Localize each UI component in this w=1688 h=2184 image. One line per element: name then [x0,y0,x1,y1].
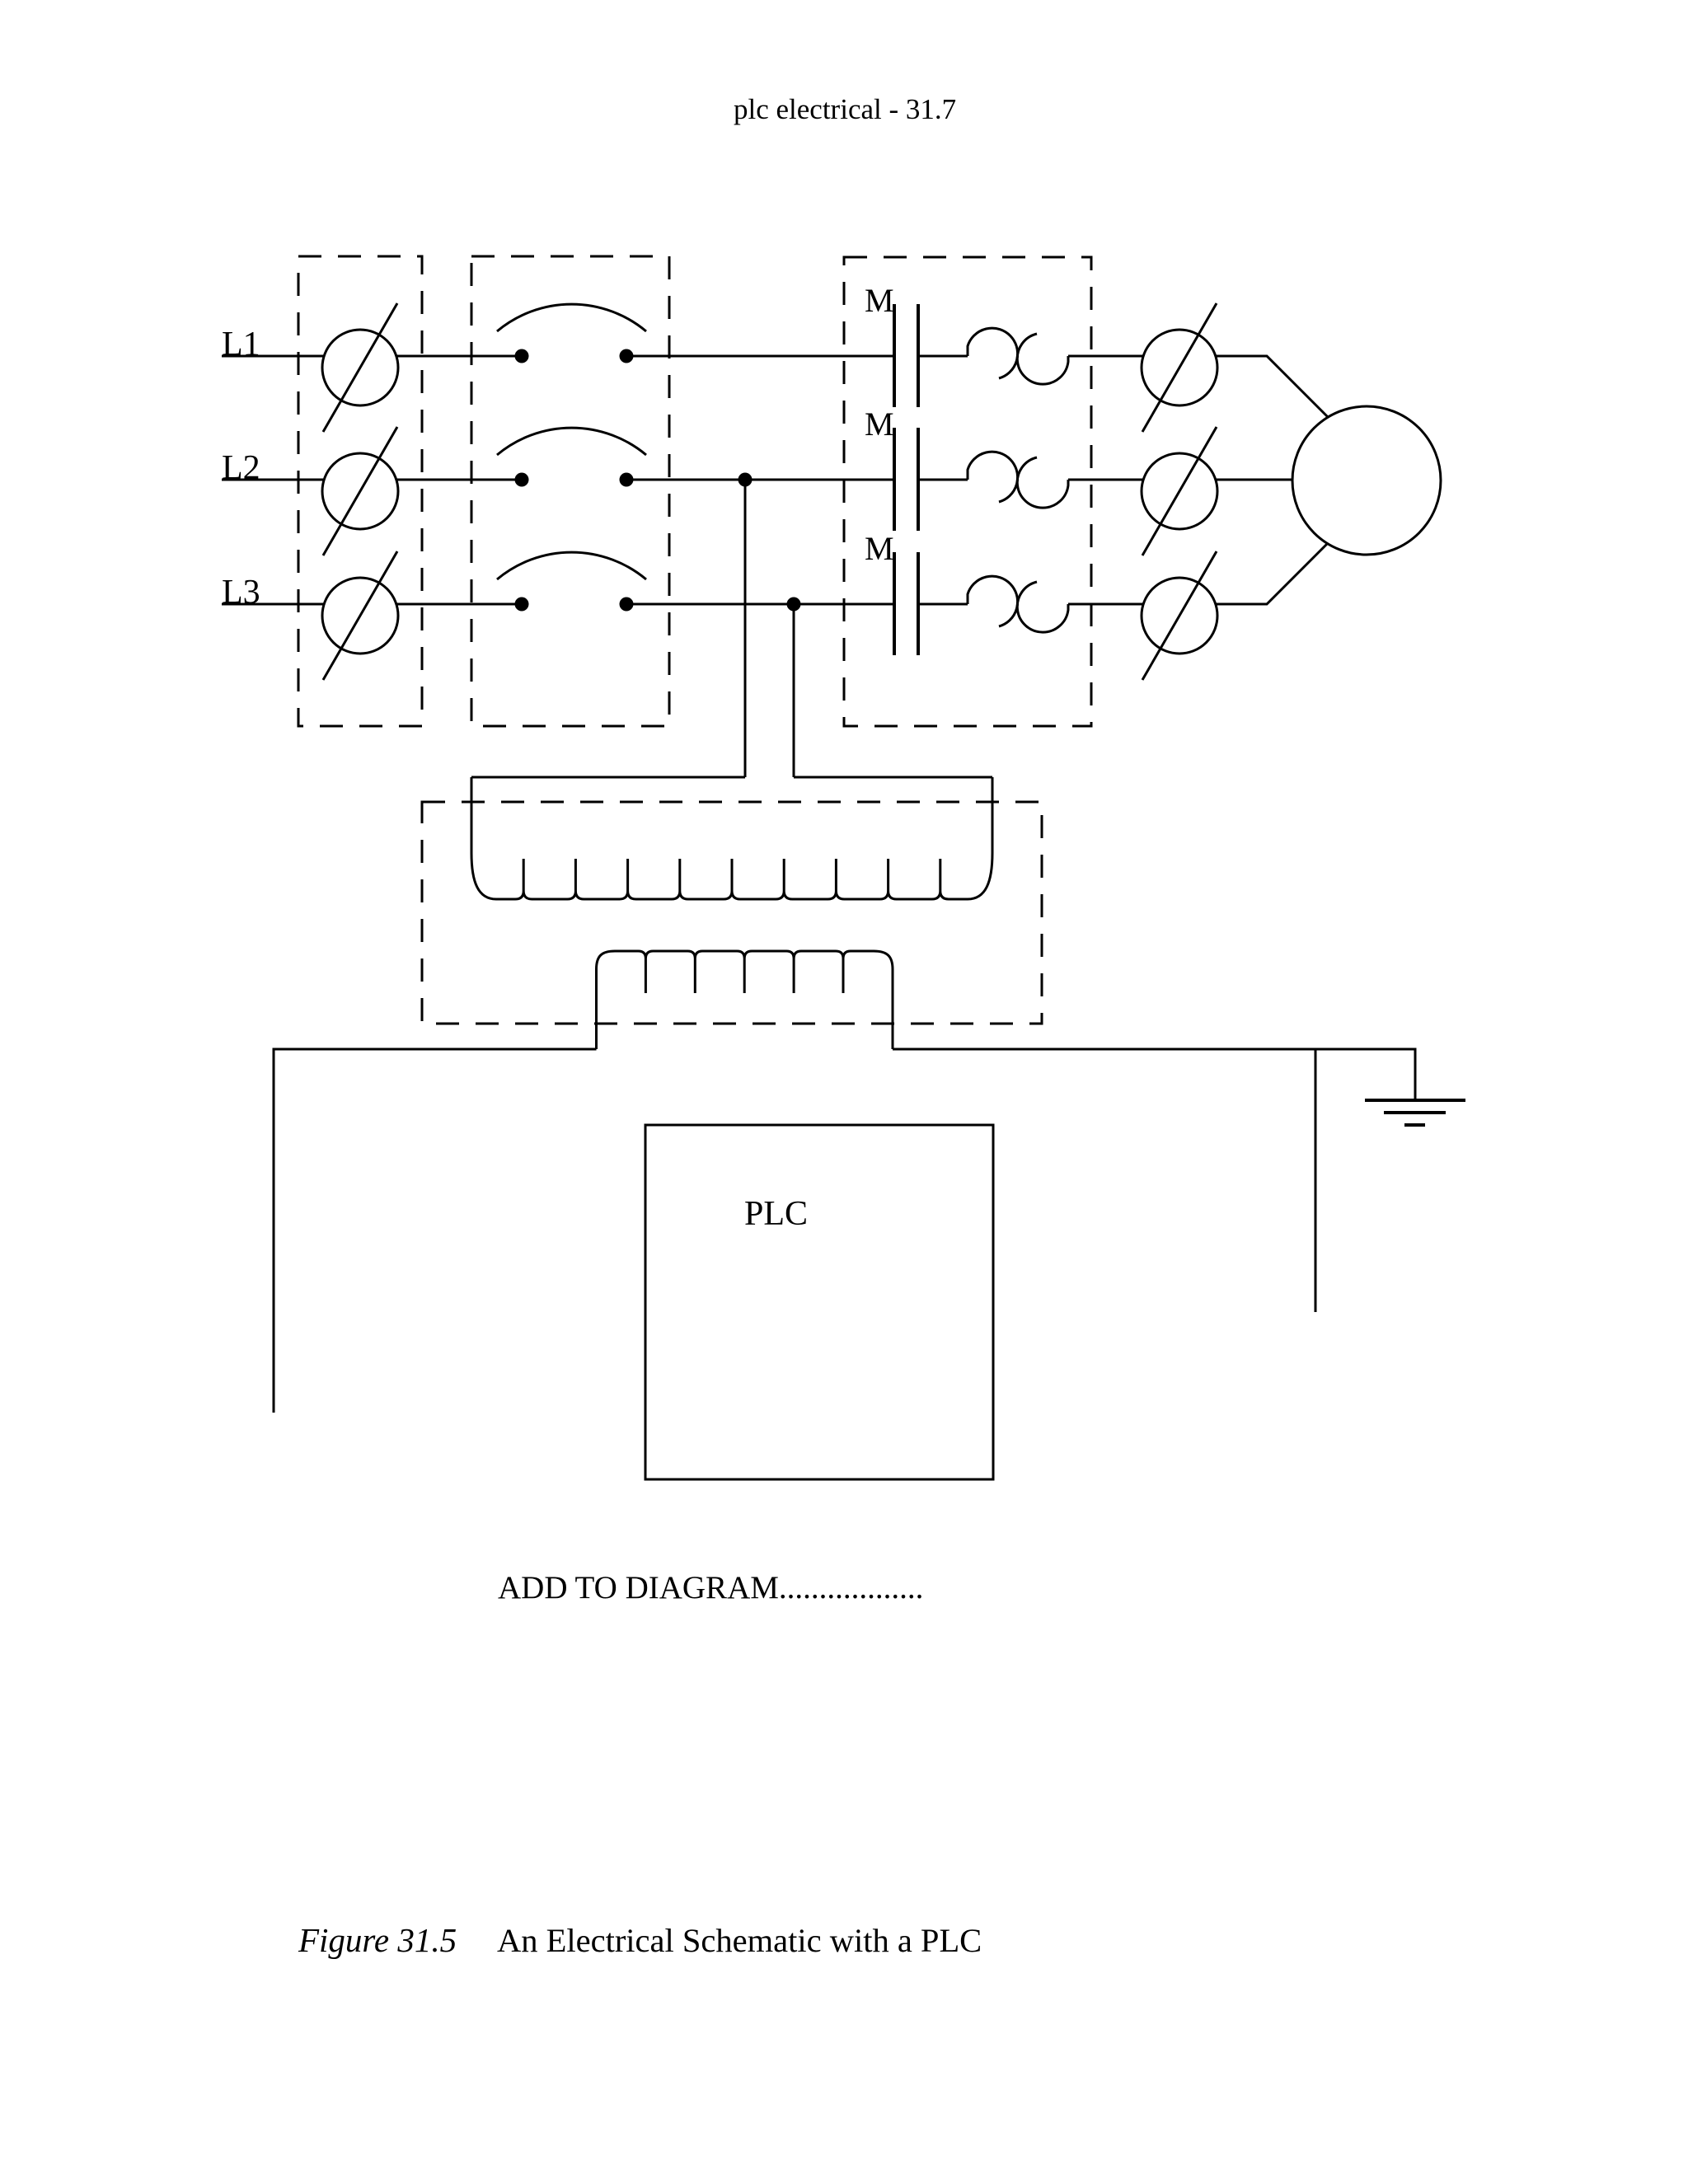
wire L2 to motor [1216,479,1292,481]
svg-text:L3: L3 [222,574,260,612]
junction dot L3-switch right [620,598,634,612]
junction dot L1-switch left [515,349,529,363]
switch blade arc L3 [497,552,646,579]
wire L1 switch to contact [626,355,894,358]
primary feeder right [794,776,992,779]
wire L3 overload to fuse [1068,603,1143,606]
fuse F6 circle [1142,578,1217,654]
fuse F2 slash [323,427,397,555]
junction dot L2-switch right [620,473,634,487]
fuse F3 slash [323,551,397,680]
wire L2 tap vertical [744,480,747,777]
PLC box [645,1125,993,1479]
junction dot L2-switch left [515,473,529,487]
wire L3 left [222,603,324,606]
wire L1 overload to fuse [1068,355,1143,358]
wire L1 left [222,355,324,358]
fuse F4 circle [1142,330,1217,405]
junction dot L2 tap [738,473,753,487]
wire L2 to switch [396,479,522,481]
svg-text:L2: L2 [222,449,260,487]
junction dot L3-switch left [515,598,529,612]
svg-text:PLC: PLC [744,1195,808,1233]
wire L1 to switch [396,355,522,358]
junction dot L3 tap [787,598,801,612]
switch blade arc L1 [497,304,646,331]
wire secondary right to ground [893,1049,1415,1100]
overload relay L2 [968,452,1018,502]
wire L2 contact to overload [918,479,968,481]
breaker box (dashed box 2) [471,256,669,726]
svg-text:plc electrical - 31.7: plc electrical - 31.7 [734,93,956,125]
wire L3 contact to overload [918,603,968,606]
svg-text:An Electrical Schematic with a: An Electrical Schematic with a PLC [497,1922,982,1959]
wire L2 overload to fuse [1068,479,1143,481]
fuse F2 circle [322,453,398,529]
wire secondary left to PLC area [274,1049,597,1413]
svg-text:ADD TO DIAGRAM................: ADD TO DIAGRAM.................. [498,1570,923,1605]
fuse F5 circle [1142,453,1217,529]
contactor M contact L2 bars [893,428,896,531]
switch blade arc L2 [497,428,646,455]
motor circle [1292,406,1441,555]
contactor M contact L1 bars [893,304,896,407]
wire L3 tap vertical [793,604,795,777]
fuse F1 circle [322,330,398,405]
wire L2 left [222,479,324,481]
fuse F4 slash [1142,303,1217,432]
fuse F6 slash [1142,551,1217,680]
wire dangling vertical [1315,1049,1317,1312]
ground symbol [1365,1099,1465,1102]
fuse F3 circle [322,578,398,654]
fuse F5 slash [1142,427,1217,555]
wire L3 to switch [396,603,522,606]
junction dot L1-switch right [620,349,634,363]
svg-text:M: M [865,282,894,319]
transformer primary winding [471,777,992,899]
wire L3 to motor [1216,543,1328,604]
wire L1 contact to overload [918,355,968,358]
contactor/overload box (dashed box 3) [844,257,1091,726]
contactor M contact L3 bars [893,552,896,655]
svg-text:M: M [865,530,894,567]
svg-text:Figure 31.5: Figure 31.5 [298,1921,457,1959]
overload relay L1 [968,328,1018,378]
fuse F1 slash [323,303,397,432]
disconnect box (dashed box 1) [298,256,422,726]
wire L1 to motor [1216,356,1328,417]
transformer secondary winding [597,951,893,1049]
primary feeder left [471,776,745,779]
svg-text:L1: L1 [222,326,260,363]
wire L3 switch to contact [626,603,894,606]
overload relay L3 [968,576,1018,626]
transformer box (dashed) [422,802,1042,1024]
svg-text:M: M [865,405,894,443]
wire L2 switch to contact [626,479,894,481]
